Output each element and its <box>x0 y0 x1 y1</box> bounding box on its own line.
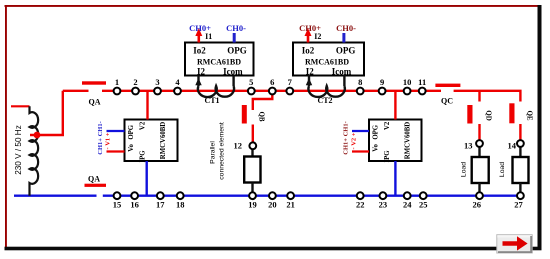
node 7 <box>286 77 293 94</box>
svg-text:21: 21 <box>286 200 295 210</box>
svg-text:V2: V2 <box>140 121 147 130</box>
svg-text:- V1 +: - V1 + <box>105 132 112 149</box>
load resistor 1 <box>461 148 489 192</box>
svg-text:CH1+ CH1-: CH1+ CH1- <box>97 121 104 155</box>
svg-text:13: 13 <box>464 141 473 151</box>
svg-text:Load: Load <box>461 162 468 177</box>
node 17 <box>156 192 165 209</box>
switch QA bottom <box>85 175 107 187</box>
node 2 <box>132 77 139 94</box>
node 15 <box>113 192 122 209</box>
U2 CH1- stub <box>352 130 369 132</box>
svg-text:Io2: Io2 <box>193 46 206 56</box>
node 10 <box>403 77 412 94</box>
svg-text:10: 10 <box>403 77 412 87</box>
parallel element resistor <box>244 150 260 192</box>
svg-text:3: 3 <box>155 77 159 87</box>
next-slide arrow button <box>497 235 532 253</box>
node 4 <box>174 77 181 94</box>
CT2 winding <box>306 75 345 105</box>
svg-text:QC: QC <box>441 97 453 106</box>
node 9 <box>379 77 386 94</box>
label Parallel connected element <box>210 122 226 180</box>
svg-text:OPG: OPG <box>227 46 247 56</box>
svg-text:CH0-: CH0- <box>336 23 356 33</box>
wire: top phase line left segment <box>63 90 89 92</box>
U1 bottom pin wire <box>145 161 147 196</box>
svg-text:19: 19 <box>248 200 257 210</box>
svg-text:Icom: Icom <box>223 66 243 76</box>
svg-text:OPG: OPG <box>336 46 356 56</box>
svg-text:RMCV60BD: RMCV60BD <box>405 122 412 159</box>
voltage meter U1 box RMCV60BD <box>125 120 178 163</box>
svg-text:I2: I2 <box>306 66 315 76</box>
svg-text:12: 12 <box>234 141 243 151</box>
node 18 <box>176 192 185 209</box>
svg-text:26: 26 <box>473 200 482 210</box>
svg-text:16: 16 <box>130 200 139 210</box>
svg-text:CH0+: CH0+ <box>189 23 211 33</box>
svg-text:I2: I2 <box>314 32 321 41</box>
U2 V2 stub <box>352 150 369 152</box>
svg-text:7: 7 <box>288 77 293 87</box>
node tap dot <box>34 132 41 139</box>
svg-text:IPG: IPG <box>384 150 391 163</box>
svg-text:QA: QA <box>88 175 100 184</box>
svg-text:14: 14 <box>508 141 517 151</box>
svg-text:22: 22 <box>356 200 365 210</box>
node 5 <box>248 77 255 94</box>
switch QB branch from node 6 <box>242 92 272 142</box>
node 23 <box>379 192 388 209</box>
svg-text:Vo: Vo <box>373 143 380 151</box>
node 19 <box>248 192 257 209</box>
CT1 CH0- pin stub <box>233 33 236 43</box>
svg-text:27: 27 <box>514 200 523 210</box>
node 1 <box>114 77 121 94</box>
wire: bottom neutral line main segment <box>103 194 521 196</box>
node 12 <box>234 141 257 151</box>
wire: tap to riser <box>30 91 63 135</box>
CT1 output arrow I1 <box>195 28 212 42</box>
svg-text:20: 20 <box>268 200 277 210</box>
svg-text:24: 24 <box>403 200 412 210</box>
svg-text:CT2: CT2 <box>317 96 332 105</box>
svg-text:2: 2 <box>133 77 137 87</box>
U2 bottom pin wire <box>394 161 396 196</box>
svg-text:CH0+: CH0+ <box>299 23 321 33</box>
U2 top pin wire <box>394 91 396 120</box>
svg-text:5: 5 <box>249 77 253 87</box>
svg-text:IPG: IPG <box>140 150 147 163</box>
node 8 <box>357 77 364 94</box>
switch QD branch <box>467 91 492 140</box>
svg-text:Icom: Icom <box>332 66 352 76</box>
svg-text:I1: I1 <box>205 32 212 41</box>
CT2 output arrow I2 <box>305 28 322 42</box>
svg-text:18: 18 <box>176 200 185 210</box>
svg-text:QB: QB <box>258 111 266 121</box>
svg-text:connected element: connected element <box>219 122 226 180</box>
node 16 <box>130 192 139 209</box>
source 230V coil <box>11 106 38 195</box>
node 27 <box>514 192 524 209</box>
svg-text:CH1+ CH1-: CH1+ CH1- <box>343 121 350 155</box>
svg-text:QD: QD <box>485 110 493 121</box>
svg-text:Load: Load <box>499 162 506 177</box>
U1 top pin wire <box>146 91 148 120</box>
node 21 <box>286 192 295 209</box>
svg-text:8: 8 <box>358 77 362 87</box>
svg-text:QA: QA <box>89 98 101 107</box>
svg-text:17: 17 <box>156 200 165 210</box>
svg-text:230 V / 50 Hz: 230 V / 50 Hz <box>14 125 23 175</box>
svg-text:25: 25 <box>419 200 428 210</box>
node 24 <box>403 192 412 209</box>
svg-text:QE: QE <box>526 110 534 120</box>
svg-text:Parallel: Parallel <box>210 141 217 164</box>
svg-text:- V2 +: - V2 + <box>351 132 358 149</box>
svg-text:V2: V2 <box>384 121 391 130</box>
node 6 <box>269 77 276 94</box>
U1 CH1- stub <box>107 130 125 132</box>
svg-text:CH0-: CH0- <box>226 23 246 33</box>
load resistor 2 <box>499 148 529 192</box>
svg-text:CT1: CT1 <box>204 96 219 105</box>
node 26 <box>473 192 483 209</box>
wire: bottom neutral line left segment <box>14 194 97 196</box>
CT2 CH0- pin stub <box>342 33 345 43</box>
switch QC <box>435 84 460 106</box>
CT1 winding <box>195 76 234 106</box>
svg-text:15: 15 <box>113 200 122 210</box>
wire: top phase line QC to QE corner <box>454 91 521 102</box>
node 22 <box>356 192 365 209</box>
node 14 <box>508 140 524 150</box>
switch QE branch <box>509 103 533 139</box>
voltage meter U2 box RMCV60BD <box>369 120 422 163</box>
svg-text:6: 6 <box>270 77 274 87</box>
current transformer CT2 box RMCA61BD <box>293 43 364 77</box>
svg-text:RMCA61BD: RMCA61BD <box>197 58 241 67</box>
node 25 <box>419 192 428 209</box>
node 20 <box>268 192 277 209</box>
svg-text:Vo: Vo <box>128 143 135 151</box>
current transformer CT1 box RMCA61BD <box>185 43 254 77</box>
svg-text:OPG: OPG <box>128 124 135 139</box>
svg-text:Io2: Io2 <box>302 46 315 56</box>
svg-text:RMCV60BD: RMCV60BD <box>160 122 167 159</box>
svg-text:I2: I2 <box>197 66 206 76</box>
U1 V1 stub <box>107 150 125 152</box>
switch QA top <box>82 81 106 106</box>
node 3 <box>154 77 161 94</box>
svg-text:11: 11 <box>418 77 426 87</box>
svg-text:OPG: OPG <box>373 124 380 139</box>
svg-text:23: 23 <box>379 200 388 210</box>
svg-text:1: 1 <box>115 77 119 87</box>
node 11 <box>418 77 426 94</box>
wire: top phase line from QA to QC <box>102 90 441 92</box>
svg-text:RMCA61BD: RMCA61BD <box>305 58 349 67</box>
svg-text:9: 9 <box>380 77 384 87</box>
node 13 <box>464 140 483 150</box>
